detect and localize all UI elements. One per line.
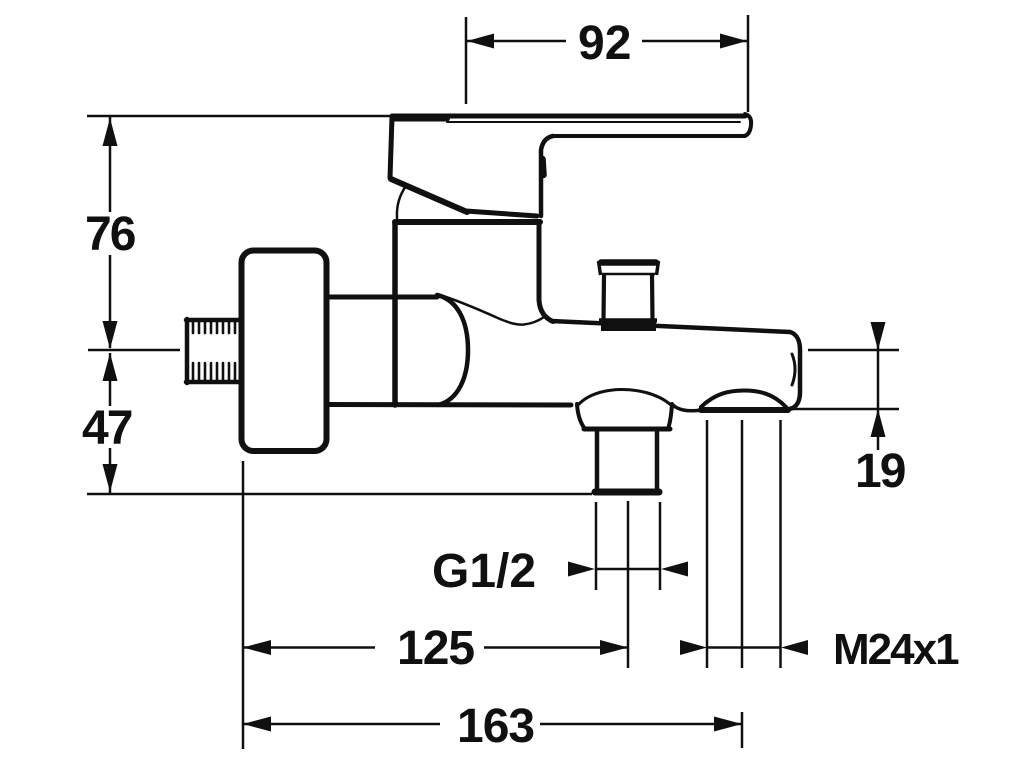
- svg-text:M24x1: M24x1: [833, 625, 959, 674]
- svg-text:G1/2: G1/2: [432, 545, 536, 598]
- svg-text:76: 76: [85, 208, 135, 261]
- svg-text:19: 19: [855, 445, 905, 498]
- svg-text:125: 125: [397, 622, 474, 675]
- svg-text:47: 47: [82, 402, 132, 455]
- svg-text:163: 163: [457, 700, 534, 753]
- svg-text:92: 92: [578, 17, 631, 70]
